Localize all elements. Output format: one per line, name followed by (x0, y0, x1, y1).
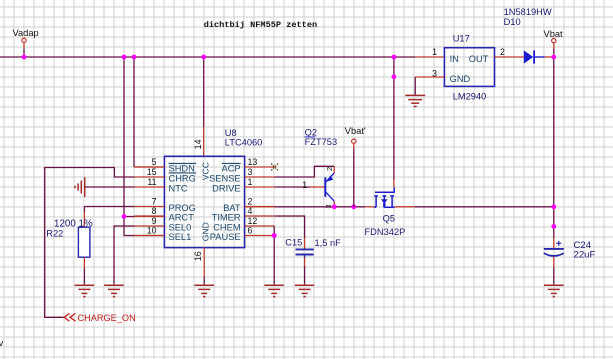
svg-text:6: 6 (248, 226, 253, 236)
svg-text:Q2: Q2 (305, 128, 317, 138)
svg-text:Vbat': Vbat' (345, 126, 366, 136)
svg-text:DRIVE: DRIVE (212, 184, 240, 194)
svg-text:2: 2 (248, 197, 253, 207)
svg-text:dichtbij NFM55P zetten: dichtbij NFM55P zetten (204, 20, 317, 30)
svg-text:2: 2 (500, 47, 505, 57)
svg-text:R22: R22 (46, 228, 63, 238)
svg-text:IN: IN (450, 54, 459, 64)
svg-text:U17: U17 (453, 34, 470, 44)
svg-text:16: 16 (193, 251, 203, 261)
svg-text:14: 14 (193, 139, 203, 149)
svg-text:SEL0: SEL0 (169, 223, 192, 233)
svg-text:PAUSE: PAUSE (210, 232, 241, 242)
svg-text:Q5: Q5 (383, 213, 395, 223)
svg-text:NTC: NTC (169, 184, 188, 194)
svg-text:VCC: VCC (200, 162, 210, 180)
svg-text:4: 4 (248, 206, 253, 216)
svg-text:CHEM: CHEM (213, 223, 240, 233)
svg-text:C15: C15 (285, 237, 302, 247)
svg-text:8: 8 (152, 206, 157, 216)
svg-text:ACP: ACP (221, 164, 240, 174)
svg-text:Vbat: Vbat (544, 29, 564, 39)
svg-text:5: 5 (152, 157, 157, 167)
svg-text:CHRG: CHRG (169, 174, 196, 184)
svg-text:1: 1 (248, 177, 253, 187)
svg-text:FZT753: FZT753 (305, 137, 338, 147)
svg-text:TIMER: TIMER (212, 213, 241, 223)
svg-text:3: 3 (248, 167, 253, 177)
svg-text:OUT: OUT (469, 54, 489, 64)
svg-text:v: v (0, 338, 4, 349)
svg-text:1: 1 (302, 180, 307, 190)
svg-text:SENSE: SENSE (209, 174, 241, 184)
svg-text:FDN342P: FDN342P (365, 227, 406, 237)
svg-text:2: 2 (325, 167, 334, 171)
svg-text:15: 15 (147, 167, 157, 177)
svg-text:7: 7 (152, 197, 157, 207)
svg-text:CHARGE_ON: CHARGE_ON (78, 313, 136, 323)
svg-text:1: 1 (432, 47, 437, 57)
svg-text:SEL1: SEL1 (169, 232, 192, 242)
svg-text:1N5819HW: 1N5819HW (504, 7, 552, 17)
svg-text:1,5 nF: 1,5 nF (315, 238, 342, 248)
svg-text:GND: GND (200, 222, 210, 241)
svg-text:LTC4060: LTC4060 (225, 137, 263, 147)
svg-text:13: 13 (248, 157, 258, 167)
svg-text:ARCT: ARCT (169, 213, 195, 223)
svg-text:GND: GND (450, 74, 471, 84)
svg-text:10: 10 (147, 226, 157, 236)
svg-text:BAT: BAT (223, 203, 241, 213)
svg-text:22uF: 22uF (574, 250, 596, 261)
svg-text:PROG: PROG (169, 203, 196, 213)
svg-text:9: 9 (152, 216, 157, 226)
svg-text:SHDN: SHDN (169, 164, 195, 174)
svg-text:11: 11 (147, 177, 156, 187)
svg-text:Vadap: Vadap (13, 28, 39, 38)
svg-text:12: 12 (248, 216, 258, 226)
svg-text:LM2940: LM2940 (453, 92, 487, 102)
svg-text:D10: D10 (504, 17, 521, 27)
